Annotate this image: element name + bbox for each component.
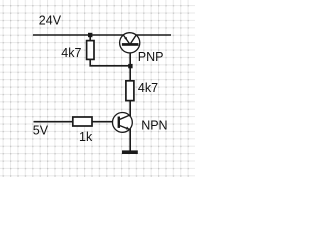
- node A junction dot: [128, 64, 132, 68]
- transistor Q1 PNP: [120, 33, 140, 53]
- svg-text:4k7: 4k7: [138, 81, 158, 95]
- wire R1 top stub: [89, 34, 91, 41]
- ground: [122, 150, 138, 154]
- wire NPN emitter to ground: [129, 129, 131, 151]
- wire 24V rail: [33, 34, 126, 36]
- svg-text:NPN: NPN: [141, 118, 167, 132]
- node on 24V rail junction dot: [88, 33, 92, 37]
- svg-text:1k: 1k: [79, 130, 93, 144]
- wire PNP base lead: [129, 53, 131, 67]
- svg-text:24V: 24V: [39, 14, 62, 28]
- wire R1 bottom to node A: [90, 59, 130, 66]
- svg-text:5V: 5V: [33, 123, 49, 137]
- background grid: [0, 0, 195, 177]
- resistor R2 4k7: [126, 81, 134, 101]
- svg-text:PNP: PNP: [138, 50, 164, 64]
- resistor R1 4k7: [87, 41, 94, 60]
- wire R3 to NPN base: [92, 121, 113, 123]
- resistor R3 1k: [73, 117, 92, 126]
- svg-text:4k7: 4k7: [61, 46, 81, 60]
- wire node A to R2: [129, 66, 131, 82]
- transistor Q2 NPN: [113, 113, 133, 133]
- wire 5V input to R3: [34, 121, 74, 123]
- wire PNP collector output: [136, 34, 171, 36]
- wire R2 to NPN collector: [129, 100, 131, 116]
